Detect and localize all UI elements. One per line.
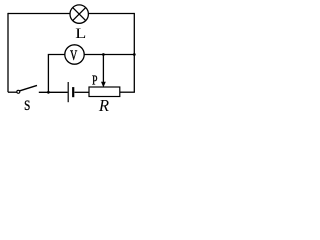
rheostat R xyxy=(89,87,120,97)
wire rheostat to right border xyxy=(120,91,135,93)
wire battery to rheostat xyxy=(75,91,90,93)
svg-text:R: R xyxy=(98,96,109,115)
svg-text:P: P xyxy=(92,72,98,88)
node junction left xyxy=(47,91,50,94)
wire bottom-left xyxy=(8,91,17,93)
switch S xyxy=(17,85,37,93)
svg-text:S: S xyxy=(24,96,30,113)
svg-text:L: L xyxy=(75,24,86,41)
wire slider drop xyxy=(102,55,104,84)
wire voltmeter right xyxy=(84,54,134,56)
svg-text:V: V xyxy=(70,47,77,63)
wire switch to battery xyxy=(39,91,68,93)
wire left border xyxy=(7,13,9,92)
voltmeter V xyxy=(65,45,84,64)
node junction slider xyxy=(102,53,105,56)
wire top-left segment xyxy=(8,13,70,15)
battery xyxy=(68,82,73,102)
wire top-right segment xyxy=(89,13,135,15)
wire voltmeter left xyxy=(48,55,64,93)
lamp L xyxy=(70,5,88,23)
node junction right xyxy=(133,53,136,56)
slider arrow P xyxy=(101,82,106,88)
wire right border xyxy=(133,13,135,92)
